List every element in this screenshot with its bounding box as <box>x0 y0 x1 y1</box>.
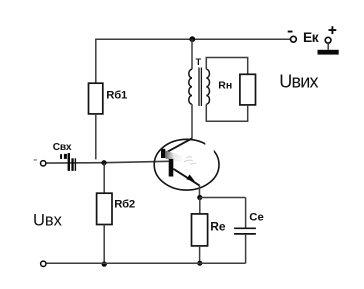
transistor VT emitter arrow <box>186 174 194 181</box>
wire Ce top lead <box>245 198 247 228</box>
node R62 bottom junction <box>102 261 107 266</box>
wire R61 top lead <box>95 39 97 84</box>
wire Re top lead <box>199 198 201 214</box>
plus sign <box>329 26 337 34</box>
terminal input <box>41 161 46 166</box>
wire Ce bottom lead <box>245 235 247 264</box>
node emitter junction <box>197 195 202 200</box>
svg-text:Uвих: Uвих <box>279 72 318 92</box>
wire bottom horizontal <box>46 262 246 264</box>
resistor Rб2 <box>97 193 112 224</box>
capacitor Cвх right plates <box>71 158 73 171</box>
battery plate bar <box>318 50 339 55</box>
svg-text:Rн: Rн <box>218 80 232 92</box>
svg-text:Uвх: Uвх <box>33 212 63 230</box>
wire secondary bottom loop <box>206 104 247 121</box>
minus sign <box>288 31 293 33</box>
terminal Ек plus <box>325 37 331 43</box>
wire secondary top lead <box>206 58 247 75</box>
transformer T core <box>199 68 201 107</box>
node bottom junction <box>197 261 202 266</box>
resistor Rн <box>240 74 256 105</box>
wire base lead <box>46 161 169 163</box>
svg-text:Ce: Ce <box>249 211 263 223</box>
node base junction <box>101 160 106 165</box>
svg-text:T: T <box>196 57 202 67</box>
transistor faint marks <box>184 157 196 165</box>
transistor VT base bar <box>169 159 174 177</box>
transformer T primary winding <box>189 69 192 104</box>
wire top horizontal <box>96 38 291 40</box>
wire R61 bottom lead <box>95 114 97 159</box>
wire emitter node horizontal <box>200 197 246 199</box>
svg-text:Cвх: Cвх <box>53 142 72 153</box>
wire R62 bottom lead <box>103 225 105 264</box>
transformer T secondary winding <box>206 69 209 104</box>
svg-text:Re: Re <box>210 220 226 234</box>
transistor VT body ellipse <box>154 139 219 190</box>
transistor VT emitter line <box>173 169 199 186</box>
node collector top junction <box>189 36 195 42</box>
terminal Ек minus <box>291 36 297 42</box>
svg-text:Rб1: Rб1 <box>106 89 127 101</box>
terminal bottom input <box>41 261 46 266</box>
svg-text:Rб2: Rб2 <box>114 198 135 210</box>
wire transformer primary top lead <box>191 39 193 69</box>
capacitor Ce plates <box>234 228 256 234</box>
input minus dash <box>34 159 38 160</box>
capacitor Cвх tick marks <box>60 154 62 159</box>
transistor VT collector bar <box>161 149 165 158</box>
wire R62 top lead <box>103 163 105 194</box>
wire emitter vertical <box>199 185 201 197</box>
svg-text:Ек: Ек <box>303 30 319 45</box>
transistor highlight smear <box>166 151 185 163</box>
capacitor Cвх left plate <box>68 153 70 171</box>
wire battery stem <box>327 43 329 50</box>
resistor Re <box>192 214 208 246</box>
wire collector diagonal into transistor <box>166 138 192 152</box>
wire collector vertical <box>191 104 193 138</box>
wire Re bottom lead <box>199 246 201 263</box>
resistor Rб1 <box>89 83 103 114</box>
transistor body gap patch <box>205 142 214 153</box>
